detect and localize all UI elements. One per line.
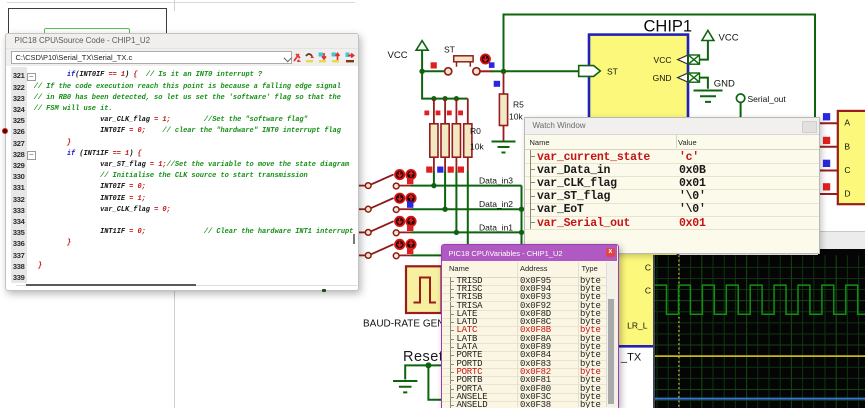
chip U2 (behind windows): [600, 228, 678, 346]
node Data_in3: [431, 183, 436, 188]
node Reset junction: [425, 362, 431, 368]
node Data_in2: [442, 207, 447, 212]
svg-text:C: C: [645, 286, 651, 296]
switch SW3 (Data_in3): [359, 174, 411, 189]
code window: [5, 33, 359, 291]
resistor R5: [499, 73, 524, 141]
svg-text:LR_L: LR_L: [627, 320, 648, 330]
pin GND arrow mark: [678, 73, 688, 82]
svg-text:VCC: VCC: [654, 55, 672, 65]
wire R0 columns down to data rows: [434, 171, 468, 255]
wire VCC pin to power arrow: [700, 41, 708, 60]
terminal Serial_out: [736, 94, 786, 118]
scope trace channel A (clock): [655, 285, 865, 314]
generator BAUD-RATE: [363, 266, 445, 329]
scope window: [818, 231, 865, 250]
power VCC right: [702, 30, 739, 43]
logic state square (blue) above R5: [494, 81, 500, 87]
wire Data_in0: [411, 254, 443, 256]
actuator of SW0: [395, 240, 416, 254]
wire node to ST port: [504, 70, 579, 72]
logic state square (red) left of button: [431, 62, 437, 68]
logic state squares below R0: [426, 167, 464, 173]
pins of A-D chip: [818, 123, 838, 194]
wire button to node: [480, 70, 504, 72]
svg-text:R5: R5: [513, 100, 524, 110]
scope trace channel C (blue): [655, 397, 865, 399]
switch SW1 (Data_in1): [359, 221, 411, 236]
switch SW0 (Data_in0): [359, 244, 411, 259]
pin GND crossed box: [688, 73, 699, 82]
logic state square (blue) right of button: [489, 62, 495, 68]
svg-text:Reset: Reset: [403, 349, 443, 365]
svg-text:Serial_out: Serial_out: [748, 94, 787, 104]
svg-text:B: B: [844, 142, 850, 152]
wire Data_in1: [411, 231, 522, 233]
svg-text:CHIP1: CHIP1: [644, 18, 693, 36]
svg-text:Data_in2: Data_in2: [479, 199, 513, 209]
ground under R5: [492, 142, 516, 153]
button ST: [444, 45, 480, 75]
port ST input: [579, 66, 601, 77]
node Data_in1: [454, 230, 459, 235]
resistor pack R0: [430, 99, 485, 172]
wire Reset to chip U2: [428, 365, 443, 399]
svg-text:VCC: VCC: [719, 33, 739, 44]
ground under GND pin: [694, 91, 723, 102]
svg-text:Data_in3: Data_in3: [479, 176, 513, 186]
breakpoint dot line 326: [2, 128, 8, 134]
svg-text:_TX: _TX: [620, 352, 642, 364]
scope grid: [655, 255, 865, 408]
svg-text:C: C: [844, 165, 850, 175]
svg-text:A: A: [844, 117, 850, 127]
pin VCC crossed box: [688, 55, 699, 64]
wire GND pin to ground: [700, 78, 708, 89]
svg-text:C: C: [645, 263, 651, 273]
svg-text:D: D: [844, 189, 850, 199]
actuator of button ST: [481, 54, 490, 63]
svg-text:ST: ST: [607, 66, 618, 76]
svg-text:BAUD-RATE GEN: BAUD-RATE GEN: [363, 319, 445, 330]
actuator of SW2: [395, 194, 416, 208]
wire Data_in2: [411, 208, 522, 210]
svg-text:GND: GND: [653, 73, 672, 83]
power VCC left: [388, 41, 429, 72]
logic state squares A-D: [823, 113, 830, 190]
wire VCC to button: [422, 70, 444, 72]
node R0 rail dots: [431, 96, 459, 101]
ground under Reset: [393, 381, 417, 392]
wire VCC down to R0 rail: [422, 71, 468, 98]
wire Data_in3: [411, 185, 522, 187]
svg-text:ST: ST: [444, 45, 455, 55]
wire data bus vertical: [521, 186, 523, 250]
switch SW2 (Data_in2): [359, 198, 411, 213]
background window chrome top-left: [7, 2, 355, 3]
logic state squares above R0: [424, 111, 463, 116]
chip CHIP1 (PIC18 CPU U2): [589, 18, 692, 121]
svg-text:VCC: VCC: [388, 50, 408, 61]
svg-text:GND: GND: [714, 78, 735, 89]
svg-text:10k: 10k: [509, 112, 523, 122]
wire stub on code window edge: [322, 289, 326, 291]
wire Reset net: [405, 365, 443, 379]
actuator of SW1: [395, 217, 416, 231]
scope cursor line: [677, 255, 679, 408]
svg-text:10k: 10k: [470, 142, 484, 152]
node ST junction left: [419, 69, 424, 74]
chip U3 output buffer (A-D): [838, 111, 865, 204]
svg-text:Data_in1: Data_in1: [479, 222, 513, 232]
wire top frame: [504, 15, 816, 118]
svg-text:R0: R0: [470, 126, 481, 136]
scope trace channel B (yellow): [655, 355, 865, 357]
node junction to R5/ST: [501, 69, 506, 74]
node bus dots: [519, 207, 524, 236]
pin VCC arrow mark: [678, 55, 688, 64]
watch window: [524, 117, 820, 254]
variables window: [441, 244, 619, 408]
actuator of SW3: [395, 170, 416, 184]
